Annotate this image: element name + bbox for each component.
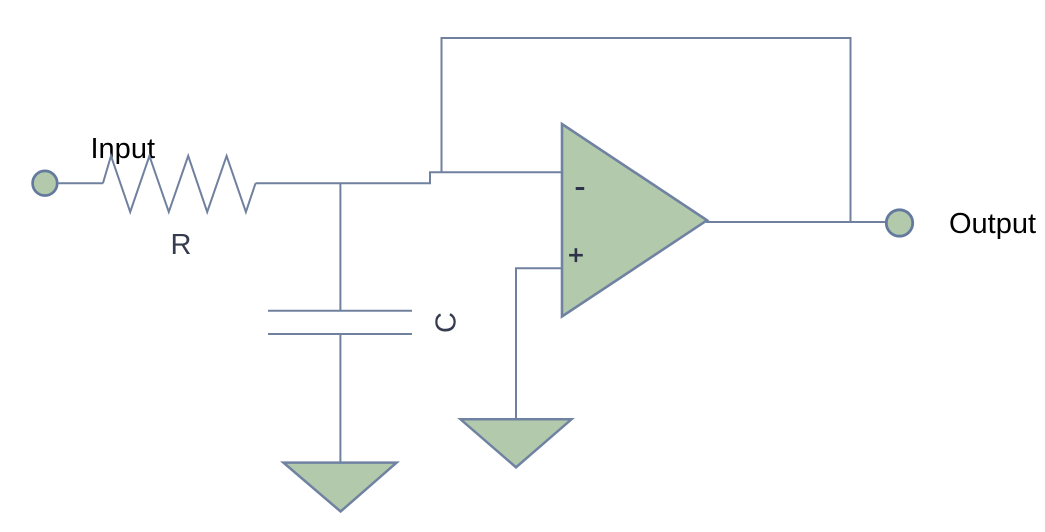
svg-text:Output: Output — [949, 208, 1036, 240]
svg-text:R: R — [171, 229, 192, 261]
pin label minus — [576, 187, 585, 190]
wire non-inverting input to ground — [516, 268, 561, 419]
wire output — [706, 221, 886, 223]
node junction at capacitor tap — [339, 183, 341, 310]
wire input lead — [58, 182, 103, 184]
pin label plus — [569, 248, 583, 262]
svg-text:C: C — [431, 312, 463, 333]
ground GND2 — [461, 419, 572, 467]
input terminal J1 — [33, 171, 58, 196]
wire resistor to op-amp inverting input — [256, 172, 562, 183]
wire feedback loop — [442, 38, 851, 222]
wire capacitor to ground — [339, 334, 341, 462]
svg-text:Input: Input — [91, 133, 156, 165]
capacitor C — [268, 311, 412, 334]
resistor R — [103, 156, 256, 212]
ground GND1 — [283, 463, 396, 512]
output terminal J2 — [886, 210, 912, 236]
op-amp U1 — [562, 124, 707, 317]
